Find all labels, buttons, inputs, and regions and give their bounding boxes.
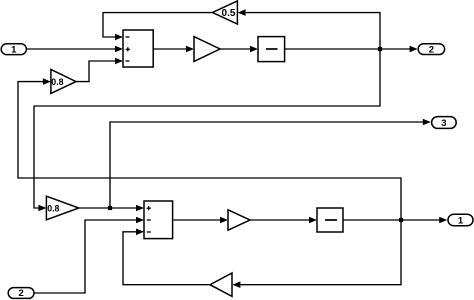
svg-text:0.8: 0.8 [47,203,59,213]
input port 2 [8,288,34,300]
wire G1 to unit block U1 [220,46,258,53]
unit block U2 [317,208,343,232]
wire branch from node at (380,49) up to gain G2 input [238,9,380,49]
output port 3 [432,117,457,129]
output port 2 [418,44,444,56]
gain G6 [210,273,232,296]
svg-text:0.5: 0.5 [222,8,236,19]
wire S1 output to gain G1 [153,46,194,53]
unit block U1 [258,37,285,62]
output port 1 [448,214,473,226]
wire G2 output to sum S1 top input [103,13,213,41]
wire In1 to sum S1 middle input [27,46,123,53]
svg-text:0.8: 0.8 [51,77,63,87]
wire G6 output to sum S2 bottom input [123,229,210,285]
wire G4 output to sum S2 top input [79,205,144,212]
wire S2 output to gain G5 [174,217,229,224]
gain G1 [194,37,220,62]
gain G2 value 0.5 [213,1,238,24]
wire G3 output to sum S1 bottom input [76,58,123,82]
svg-text:3: 3 [441,118,446,129]
svg-text:2: 2 [429,44,434,55]
wire U2 output to output port 1 [343,217,447,224]
svg-text:2: 2 [18,288,23,299]
sum block S1 [123,30,153,67]
gain G3 value 0.8 [51,69,76,93]
wire branch from node at (380,49) down and across to gain G4 input [34,49,380,211]
gain G5 [228,210,250,230]
wire to output port 3 from node at (110,208) [110,119,431,208]
input port 1 [1,44,26,56]
gain G4 value 0.8 [46,196,78,220]
wire G5 to unit block U2 [250,217,317,224]
wire feedback from node at (401,220) to gain G3 input [18,78,401,220]
svg-text:1: 1 [458,216,464,227]
svg-text:1: 1 [11,44,17,55]
wire In2 to sum S2 middle input [34,217,144,293]
sum block S2 [144,201,173,239]
wire branch from node at (401,220) down to gain G6 input [232,220,401,288]
wire U1 output to output port 2 [285,46,418,53]
